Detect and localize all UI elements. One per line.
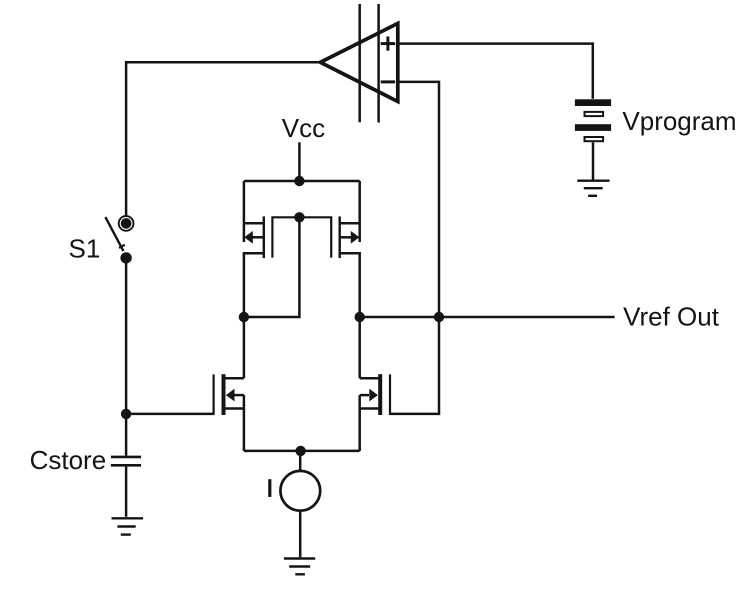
svg-text:S1: S1 <box>69 233 101 263</box>
svg-text:Cstore: Cstore <box>30 445 107 475</box>
svg-text:Vref Out: Vref Out <box>623 301 720 331</box>
svg-text:Vcc: Vcc <box>282 113 325 143</box>
svg-text:Vprogram: Vprogram <box>622 106 736 136</box>
